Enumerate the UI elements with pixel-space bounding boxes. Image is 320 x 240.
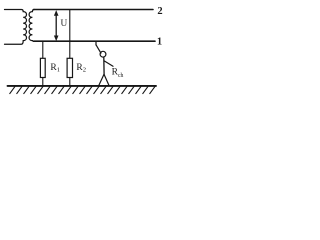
voltage arrow U shaft — [55, 14, 57, 39]
svg-text:1: 1 — [157, 37, 162, 48]
person right leg — [104, 74, 109, 85]
resistor R1 body — [40, 58, 45, 77]
resistor R2 body — [67, 58, 72, 77]
wire from line 1 down to R1 — [42, 41, 44, 58]
person left leg — [99, 74, 104, 85]
wire line 2 (upper conductor) — [34, 9, 154, 11]
svg-text:R2: R2 — [76, 63, 86, 74]
person raised arm — [96, 45, 101, 53]
svg-text:Rch: Rch — [112, 68, 124, 79]
person hand contact tick on line 1 — [95, 42, 97, 46]
transformer T secondary winding — [29, 10, 34, 42]
svg-text:R1: R1 — [50, 63, 60, 74]
svg-text:U: U — [61, 19, 68, 29]
wire line 1 (lower conductor) — [34, 40, 156, 42]
earth (ground) line — [8, 85, 157, 87]
person head — [100, 51, 106, 57]
svg-text:2: 2 — [157, 6, 162, 17]
wire R1 to earth — [42, 78, 44, 86]
voltage arrow U upper arrowhead — [54, 10, 59, 16]
person body — [103, 57, 105, 74]
person lower arm — [104, 61, 113, 67]
earth hatching — [10, 86, 155, 93]
wire from line 2 down to R2 — [69, 10, 71, 59]
wire R2 to earth — [69, 78, 71, 86]
transformer T primary winding — [5, 10, 27, 45]
voltage arrow U lower arrowhead — [54, 36, 59, 42]
